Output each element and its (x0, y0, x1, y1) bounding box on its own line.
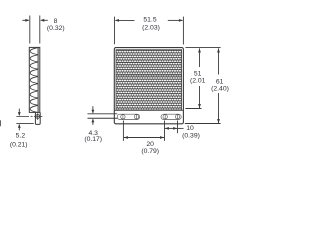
dim 51.5 (115, 17, 184, 45)
svg-text:(0.21): (0.21) (10, 142, 28, 149)
extension line top right (185, 47, 220, 49)
dim 51 (2.01) (190, 48, 206, 108)
extension line reflective-area bottom (185, 108, 201, 110)
side view tab (35, 112, 40, 124)
svg-text:5.2: 5.2 (16, 133, 26, 140)
mounting slot right (161, 114, 181, 120)
svg-text:10: 10 (186, 125, 194, 132)
dim 20 (123, 121, 164, 141)
separator line base strip (114, 109, 183, 111)
svg-text:(2.40): (2.40) (211, 85, 229, 92)
extension line body bottom (185, 123, 221, 125)
svg-text:(0.39): (0.39) (182, 132, 200, 139)
honeycomb reflective area (116, 50, 182, 110)
dim 8 (22, 16, 48, 44)
front view body outline (114, 48, 183, 124)
dim 5.2 (16, 109, 33, 131)
side view body (29, 47, 40, 112)
dim 61 (2.40) (211, 48, 229, 123)
svg-text:(0.17): (0.17) (84, 136, 102, 143)
svg-text:(0.79): (0.79) (141, 148, 159, 155)
svg-text:8: 8 (54, 18, 58, 25)
svg-text:51: 51 (194, 70, 202, 77)
dim 10 (165, 121, 184, 134)
edge mark (0, 120, 1, 126)
svg-text:(0.32): (0.32) (47, 25, 65, 32)
dim 4.3 (88, 106, 118, 125)
side view hole (36, 115, 40, 119)
mounting slot left (117, 114, 140, 120)
centerline (16, 115, 42, 117)
side view sawtooth (30, 48, 38, 113)
svg-text:51.5: 51.5 (143, 17, 156, 24)
svg-text:(2.03): (2.03) (142, 25, 160, 32)
svg-text:(2.01: (2.01 (190, 77, 206, 84)
